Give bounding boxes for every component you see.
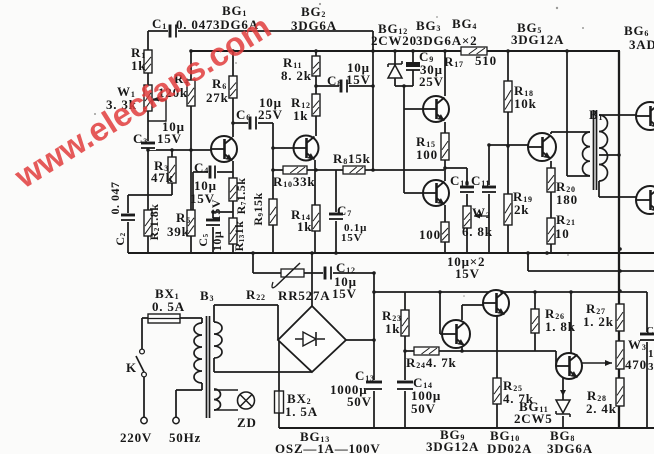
svg-text:15V: 15V	[332, 286, 357, 301]
terminal 220V	[141, 417, 147, 423]
resistor R5 39k	[187, 210, 195, 236]
resistor R7 1.5k	[229, 178, 237, 201]
svg-text:3DG6A: 3DG6A	[547, 441, 593, 454]
lamp ZD	[238, 392, 255, 409]
wire BG8 collector x571	[570, 292, 572, 354]
resistor R15 100	[441, 133, 449, 160]
transistor BG10 DD02A	[483, 290, 509, 316]
wire BG3 emitter R15	[444, 122, 446, 181]
winding B1 secondary	[599, 115, 608, 181]
potentiometer W3 470	[616, 341, 624, 369]
resistor R8 15k	[343, 166, 365, 174]
svg-text:R244. 7k: R244. 7k	[406, 355, 457, 370]
wire bottom rail y428	[279, 427, 654, 429]
junction	[569, 290, 573, 294]
wire regulator node y292	[374, 291, 647, 293]
svg-text:6. 8k: 6. 8k	[462, 224, 493, 239]
wire BG1 base line y150	[148, 149, 211, 151]
capacitor C10 10u	[459, 185, 475, 194]
junction	[189, 148, 193, 152]
resistor R10 33k	[283, 166, 307, 174]
wire R4 R5 chain x191	[190, 51, 192, 253]
junction	[231, 49, 235, 53]
resistor R28 2.4k	[616, 378, 624, 406]
wire B plus vertical x619	[618, 51, 620, 428]
transformer B1 core	[594, 110, 597, 190]
terminal 50Hz	[173, 417, 179, 423]
svg-text:25V: 25V	[419, 74, 444, 89]
junction	[314, 168, 318, 172]
wire C4 emitter bypass	[193, 172, 233, 210]
junction	[618, 289, 622, 293]
wire W2 wiper	[474, 215, 489, 217]
resistor R9 15k	[269, 199, 277, 225]
svg-text:0. 047: 0. 047	[176, 17, 213, 32]
capacitor C11 10u	[481, 185, 497, 194]
junction	[565, 49, 569, 53]
svg-text:1: 1	[648, 348, 654, 360]
capacitor C4 10u	[208, 165, 217, 180]
capacitor C15	[639, 332, 654, 342]
junction	[526, 251, 530, 255]
svg-text:R21.8k: R21.8k	[147, 204, 161, 241]
svg-text:1k: 1k	[297, 219, 312, 234]
resistor R23 1k	[401, 310, 409, 336]
svg-text:3DG12A: 3DG12A	[426, 439, 479, 454]
wire BG10 emitter R25 x497	[496, 316, 498, 428]
resistor R19 2k	[504, 194, 512, 225]
svg-text:3: 3	[648, 361, 654, 373]
svg-text:3DG6A×2: 3DG6A×2	[416, 33, 477, 48]
wire C5 branch	[213, 212, 233, 253]
svg-text:220V: 220V	[120, 430, 152, 445]
transistor BG1 3DG6A	[211, 136, 237, 162]
svg-text:R915k: R915k	[251, 192, 265, 225]
svg-text:1k: 1k	[131, 58, 146, 73]
junction	[170, 148, 174, 152]
junction	[372, 338, 376, 342]
winding B3 secondary	[214, 322, 222, 358]
wire C11 branch	[488, 145, 490, 253]
junction	[500, 290, 504, 294]
svg-text:15V: 15V	[341, 232, 362, 244]
svg-text:15V: 15V	[209, 199, 223, 221]
winding B1 primary	[583, 132, 591, 176]
svg-text:1k: 1k	[385, 321, 400, 336]
wire C2 branch	[128, 195, 172, 253]
svg-text:50Hz: 50Hz	[169, 430, 201, 445]
svg-text:3DG12A: 3DG12A	[511, 32, 564, 47]
capacitor C9 30u 25V	[406, 62, 420, 70]
capacitor C1 0.047	[168, 24, 178, 39]
junction	[411, 49, 415, 53]
wire bridge right output y340	[346, 339, 374, 341]
svg-text:R1033k: R1033k	[273, 174, 315, 189]
wire zener branch x395	[394, 51, 396, 86]
junction	[460, 349, 464, 353]
svg-text:27k: 27k	[206, 90, 229, 105]
wire bridge AC1 drop x278	[277, 305, 279, 340]
wire BG5 base line y145	[489, 144, 528, 146]
capacitor C5 10u	[205, 218, 221, 227]
switch K contact top	[140, 349, 145, 354]
resistor R20 180	[547, 168, 555, 192]
transistor BG3 3DG6A	[423, 96, 449, 122]
resistor R18 10k	[504, 81, 512, 112]
svg-text:10: 10	[555, 226, 570, 241]
transformer B3 core	[207, 316, 210, 418]
svg-text:510: 510	[475, 53, 497, 68]
junction	[231, 121, 235, 125]
svg-text:0. 047: 0. 047	[108, 182, 122, 215]
wire R11 R12 column x316	[315, 51, 317, 136]
resistor R12 1k	[312, 94, 320, 116]
svg-text:25V: 25V	[258, 107, 283, 122]
junction	[314, 49, 318, 53]
wire BG9 emitter	[461, 347, 463, 351]
resistor R2 1.8k	[144, 210, 152, 236]
junction	[506, 49, 510, 53]
svg-text:3DG6A: 3DG6A	[291, 18, 337, 33]
capacitor C14 100u 50V	[396, 380, 414, 391]
wire x273 column	[272, 123, 274, 253]
transistor BG6 3AD6	[636, 102, 654, 130]
resistor R6 27k	[229, 76, 237, 98]
transistor BG4 3DG6A	[423, 180, 449, 206]
resistor R11 8.2k	[312, 56, 320, 76]
capacitor C6 10u 25V	[248, 116, 258, 131]
zener diode BG11 2CW5	[556, 400, 570, 417]
wire BG2 emitter x316	[314, 160, 316, 253]
wire BG1 collector x233	[232, 51, 234, 137]
wire BG9 collector to BG10 base	[462, 305, 490, 320]
wire BG2 base lead	[273, 147, 294, 149]
resistor R1 1k	[144, 50, 152, 73]
wire BG9 base x440	[440, 292, 450, 334]
wire supply drop x567	[567, 51, 590, 176]
wire secondary top to bridge	[214, 305, 278, 322]
potentiometer W2 6.8k	[463, 206, 471, 228]
wire BG5 collector to B1	[551, 132, 590, 134]
svg-text:15V: 15V	[455, 266, 480, 281]
fuse BX2 1.5A	[275, 391, 284, 413]
capacitor C7 0.1u	[328, 212, 344, 221]
resistor R3 47k	[168, 157, 176, 183]
svg-text:ZD: ZD	[237, 415, 257, 430]
wire B1 center tap	[599, 154, 619, 156]
resistor R27 1.2k	[616, 304, 624, 331]
svg-text:50V: 50V	[347, 394, 372, 409]
junction	[438, 290, 442, 294]
junction	[372, 271, 376, 275]
junction	[371, 168, 375, 172]
wire BG3 base lead	[404, 108, 429, 110]
junction	[334, 251, 338, 255]
svg-text:2CW5: 2CW5	[514, 411, 553, 426]
junction	[545, 251, 549, 255]
junction	[487, 143, 491, 147]
wire zener C9 bottom y86	[395, 85, 413, 87]
resistor R21 10	[547, 218, 555, 244]
fuse BX1 0.5A	[148, 314, 180, 323]
wire RR527A C12 line y273	[253, 253, 374, 273]
wire C9 branch x413	[412, 51, 414, 86]
svg-text:R71.5k: R71.5k	[234, 178, 248, 215]
junction	[146, 148, 150, 152]
wire y351 line to BG8 base	[405, 351, 563, 366]
wire primary top lead	[201, 318, 203, 323]
junction	[533, 290, 537, 294]
svg-text:100: 100	[416, 147, 438, 162]
winding B3 lamp	[214, 389, 221, 410]
transistor BG5 3DG12A	[528, 133, 556, 161]
resistor R24 4.7k	[414, 347, 439, 355]
wire ZD lamp top	[214, 389, 238, 391]
svg-text:C15: C15	[646, 325, 654, 337]
junction	[271, 146, 275, 150]
junction	[271, 168, 275, 172]
wire BG4 base lead	[404, 192, 429, 194]
transistor BG7 3AD6	[636, 186, 654, 214]
wire bridge minus BX2 x279	[278, 340, 280, 428]
svg-text:1. 5A: 1. 5A	[285, 404, 318, 419]
bridge rectifier BG13 OSZ-1A-100V	[278, 306, 346, 372]
junction	[443, 49, 447, 53]
switch K contact bottom	[142, 372, 147, 377]
svg-text:1k: 1k	[293, 108, 308, 123]
transistor BG2 3DG6A	[294, 136, 319, 161]
wire supply rail y51	[191, 50, 620, 52]
junction	[443, 166, 447, 170]
svg-text:15V: 15V	[346, 72, 371, 87]
junction	[310, 251, 314, 255]
wire second rail y271	[528, 253, 654, 271]
svg-text:RR527A: RR527A	[278, 288, 330, 303]
junction	[211, 210, 215, 214]
transistor BG9 3DG12A	[442, 320, 470, 348]
wire BG8 emitter zener x563	[562, 378, 564, 428]
svg-text:180: 180	[556, 192, 578, 207]
wire ground rail y253	[128, 252, 654, 254]
svg-text:2CW20: 2CW20	[371, 33, 417, 48]
wire x508 column R18 R19	[507, 51, 509, 253]
winding B3 primary	[194, 323, 202, 383]
junction	[314, 84, 318, 88]
junction	[371, 49, 375, 53]
wire BG3 collector	[444, 51, 446, 96]
transistor BG8 3DG6A	[556, 353, 582, 379]
svg-text:2k: 2k	[514, 202, 529, 217]
capacitor C3 10u 15V	[140, 141, 156, 150]
resistor R25 4.7k	[493, 378, 501, 404]
svg-text:39k: 39k	[167, 224, 190, 239]
junction	[617, 153, 621, 157]
capacitor C12 10u 15V	[323, 266, 333, 281]
wire C1 feedback line y31	[148, 30, 373, 32]
svg-text:10μ: 10μ	[210, 231, 224, 251]
junction	[251, 251, 255, 255]
wire BG1 emitter x233	[232, 161, 234, 253]
switch K blade	[136, 356, 144, 372]
wire R23 C14 column x405	[404, 292, 406, 428]
wire bridge plus to ground x312	[311, 253, 313, 306]
svg-text:8. 2k: 8. 2k	[281, 68, 312, 83]
wire right branch x647	[646, 292, 648, 428]
resistor R16 100	[441, 222, 449, 242]
wire primary bottom to 50Hz	[176, 383, 202, 417]
capacitor C8 10u 15V	[339, 79, 349, 94]
resistor R14 1k	[312, 205, 320, 231]
zener diode BG12 2CW20	[388, 61, 402, 78]
wire W1 wiper loop	[148, 100, 166, 121]
junction	[618, 247, 622, 251]
capacitor C2 0.047	[120, 213, 136, 222]
wire B1 bottom lead to BG7	[599, 181, 641, 197]
wire BG5 emitter R20 R21	[550, 161, 552, 253]
wire bias vertical x404	[403, 86, 405, 193]
svg-text:K: K	[126, 360, 137, 375]
junction	[393, 49, 397, 53]
thermistor R22 RR527A	[272, 263, 304, 288]
svg-text:2. 4k: 2. 4k	[586, 401, 617, 416]
junction	[506, 144, 510, 148]
junction	[618, 269, 622, 273]
wire input chain x148	[147, 31, 149, 253]
resistor R17 510	[461, 47, 487, 55]
junction	[402, 84, 406, 88]
svg-text:10k: 10k	[514, 96, 537, 111]
capacitor C13 1000u 50V	[365, 380, 383, 391]
wire C7 branch x336	[335, 170, 337, 253]
potentiometer W1 3.3k	[144, 85, 152, 111]
wire C8 line y86	[316, 85, 373, 87]
svg-text:OSZ—1A—100V: OSZ—1A—100V	[275, 441, 381, 454]
wire C6 coupling y123	[233, 122, 273, 124]
svg-text:1. 2k: 1. 2k	[583, 314, 614, 329]
emitter arrow BG8	[560, 390, 566, 396]
svg-text:470: 470	[625, 357, 647, 372]
svg-text:100: 100	[419, 227, 441, 242]
junction	[372, 290, 376, 294]
resistor R4 120k	[187, 80, 195, 106]
wire switch to 220V terminal	[143, 377, 145, 417]
wire fuse to switch	[142, 318, 202, 349]
svg-text:R815k: R815k	[333, 151, 371, 166]
junction	[371, 84, 375, 88]
svg-text:0. 5A: 0. 5A	[152, 299, 185, 314]
wire B1 top lead to BG6	[599, 114, 641, 116]
resistor R13 1k	[229, 218, 237, 244]
wire output vertical x374	[373, 273, 375, 428]
svg-text:50V: 50V	[411, 401, 436, 416]
wire ZD lamp bottom	[214, 409, 238, 411]
svg-text:DD02A: DD02A	[487, 441, 532, 454]
svg-text:1. 8k: 1. 8k	[545, 319, 576, 334]
wire R3 branch x172	[171, 150, 173, 195]
wire feedback vertical x373	[372, 31, 374, 170]
wire BG8 to W3 wiper	[581, 362, 612, 364]
wire BG4 emitter R16	[444, 205, 446, 253]
svg-text:15V: 15V	[157, 131, 182, 146]
junction	[403, 349, 407, 353]
wire C10 branch	[445, 168, 467, 253]
wire R26 column x535	[534, 292, 536, 351]
svg-text:3AD6: 3AD6	[629, 37, 654, 52]
wire secondary bottom to bridge	[214, 358, 312, 372]
svg-text:47k: 47k	[151, 170, 174, 185]
wire y170 line	[273, 169, 444, 171]
junction	[189, 49, 193, 53]
resistor R26 1.8k	[531, 309, 539, 333]
